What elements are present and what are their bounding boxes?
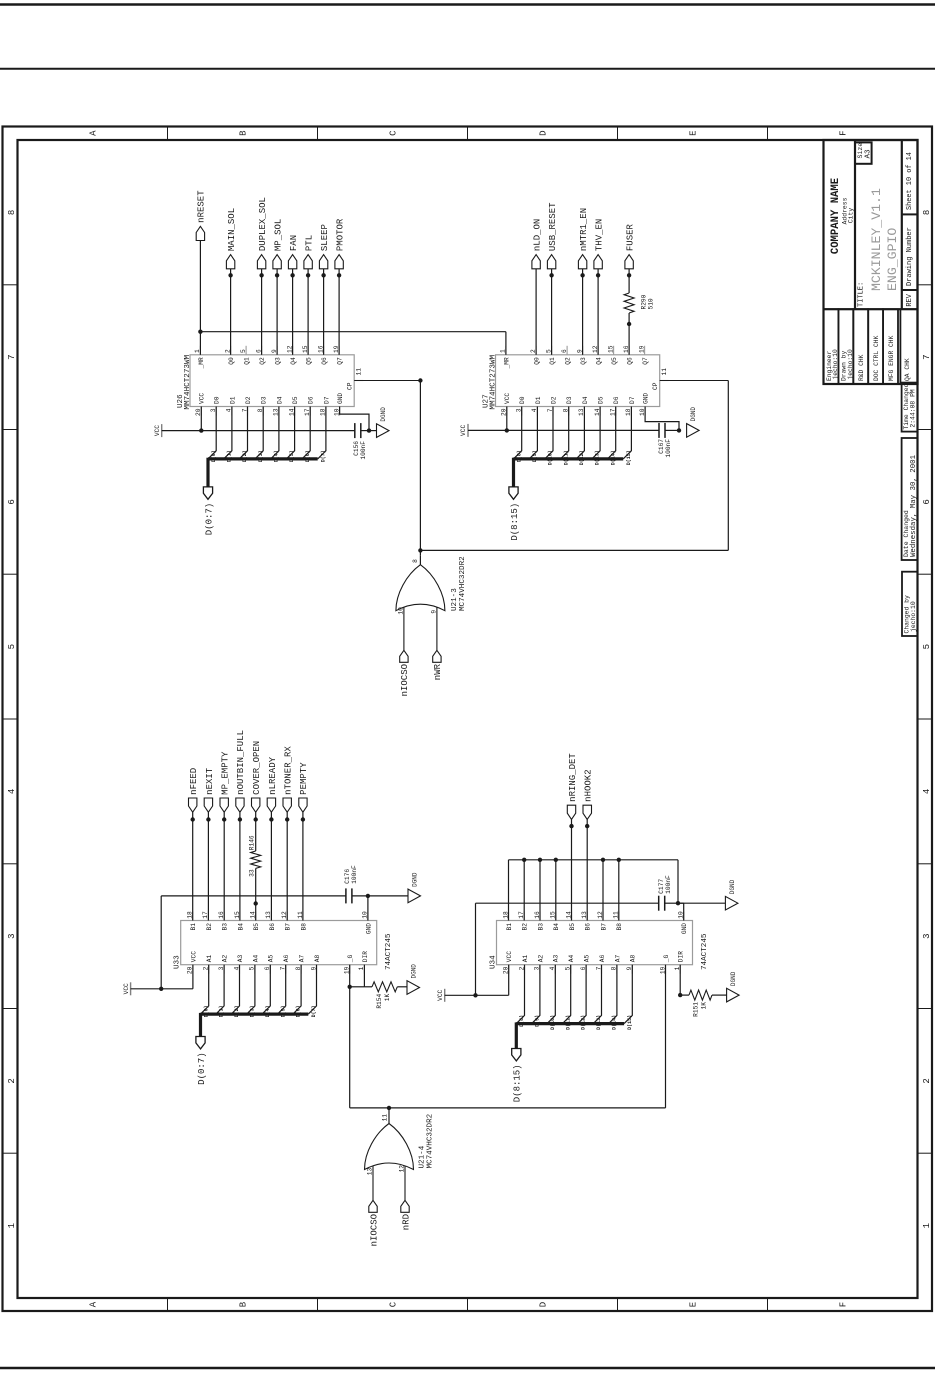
svg-text:A3: A3 — [237, 954, 244, 962]
svg-text:Q4: Q4 — [596, 357, 603, 365]
svg-text:A4: A4 — [568, 954, 575, 962]
bus flag D(0:7) — [203, 487, 212, 499]
svg-text:7: 7 — [7, 354, 17, 359]
svg-text:A: A — [89, 130, 99, 136]
svg-text:A4: A4 — [252, 954, 259, 962]
net flag nEXIT — [207, 812, 209, 920]
svg-text:D7: D7 — [629, 396, 636, 404]
net flag nRD — [401, 1200, 409, 1212]
wire U27 D2 — [545, 407, 553, 459]
svg-text:A5: A5 — [584, 954, 591, 962]
svg-text:D4: D4 — [276, 396, 283, 404]
svg-text:510: 510 — [648, 298, 655, 309]
svg-text:MFG ENGR CHK: MFG ENGR CHK — [888, 335, 895, 381]
ground DGND R154 — [407, 981, 420, 995]
svg-text:33: 33 — [249, 869, 256, 877]
svg-text:8: 8 — [412, 559, 419, 563]
net flag nWR — [433, 650, 441, 662]
svg-text:5: 5 — [7, 644, 17, 649]
svg-text:6: 6 — [7, 499, 17, 504]
svg-text:F: F — [839, 130, 849, 135]
svg-text:11: 11 — [661, 368, 668, 376]
svg-text:A5: A5 — [268, 954, 275, 962]
svg-text:100nF: 100nF — [360, 441, 367, 460]
svg-text:1K: 1K — [701, 1002, 708, 1010]
svg-text:1: 1 — [922, 1223, 932, 1228]
svg-text:D: D — [539, 130, 549, 135]
svg-text:B3: B3 — [537, 923, 544, 931]
svg-text:Q0: Q0 — [228, 357, 235, 365]
svg-text:nRD: nRD — [401, 1214, 411, 1230]
svg-text:DOC CTRL CHK: DOC CTRL CHK — [873, 335, 880, 381]
wire U34 A5 — [578, 965, 586, 1024]
wire U34 B7 — [602, 860, 604, 921]
svg-text:GND: GND — [337, 393, 344, 404]
svg-text:REV: REV — [906, 293, 914, 306]
svg-text:B5: B5 — [253, 923, 260, 931]
svg-text:U21-4: U21-4 — [419, 1145, 427, 1168]
wire U27 D5 — [592, 407, 600, 459]
IC U34 body — [497, 921, 693, 965]
svg-text:Q1: Q1 — [549, 357, 556, 365]
wire U34 B2 — [523, 860, 525, 921]
svg-text:D(15): D(15) — [627, 1015, 633, 1030]
svg-text:PMOTOR: PMOTOR — [335, 218, 345, 251]
svg-text:3: 3 — [922, 933, 932, 938]
power VCC U33 — [130, 982, 132, 995]
net flag nIOCSO (U21-3) — [400, 650, 408, 662]
svg-text:A8: A8 — [630, 954, 637, 962]
net flag FUSER — [625, 255, 633, 269]
svg-text:VCC: VCC — [506, 951, 513, 962]
border column dividers — [3, 1152, 18, 1154]
svg-text:A6: A6 — [283, 954, 290, 962]
svg-text:E: E — [689, 1302, 699, 1307]
svg-text:B: B — [239, 130, 249, 136]
svg-text:B7: B7 — [285, 923, 292, 931]
svg-text:D(7): D(7) — [311, 1005, 317, 1017]
svg-text:FUSER: FUSER — [625, 223, 635, 251]
svg-text:D(8:15): D(8:15) — [513, 1064, 523, 1102]
svg-text:ENG_GPIO: ENG_GPIO — [885, 228, 900, 291]
svg-text:D5: D5 — [292, 396, 299, 404]
svg-text:B8: B8 — [300, 923, 307, 931]
wire U34 B8 — [618, 860, 620, 921]
svg-text:VCC: VCC — [504, 393, 511, 404]
svg-text:SLEEP: SLEEP — [320, 224, 330, 251]
svg-text:C167: C167 — [658, 439, 665, 454]
svg-text:D(8:15): D(8:15) — [510, 503, 520, 541]
wire U34 A2 — [532, 965, 540, 1024]
net flag MP_SOL — [276, 269, 278, 355]
wire U34 B3 — [539, 860, 541, 921]
resistor R154 1K — [372, 982, 397, 992]
wire U27 D3 — [561, 407, 569, 459]
svg-text:9: 9 — [430, 610, 437, 614]
svg-text:PTL: PTL — [304, 235, 314, 251]
svg-text:74ACT245: 74ACT245 — [701, 933, 709, 970]
capacitor C156 100nF — [354, 423, 356, 438]
svg-text:2:44:08 PM: 2:44:08 PM — [910, 389, 917, 428]
svg-text:B2: B2 — [522, 923, 529, 931]
svg-text:D(7): D(7) — [321, 450, 327, 462]
wire U27 D6 — [608, 407, 616, 459]
svg-text:B4: B4 — [237, 923, 244, 931]
svg-text:nRING_DET: nRING_DET — [568, 753, 578, 802]
ground DGND U33 cap — [408, 889, 421, 903]
svg-text:DUPLEX_SOL: DUPLEX_SOL — [258, 197, 268, 251]
svg-text:1K: 1K — [384, 994, 391, 1002]
title block outline — [824, 140, 918, 384]
ground DGND U27 — [687, 424, 700, 438]
wire U33 A7 — [293, 965, 301, 1014]
size box — [855, 142, 872, 163]
qa chk box — [900, 309, 917, 384]
net flag SLEEP — [323, 269, 325, 355]
page rule top — [0, 3, 935, 6]
svg-text:DGND: DGND — [690, 407, 697, 422]
svg-text:Q5: Q5 — [611, 357, 618, 365]
wire U33 A2 — [216, 965, 224, 1014]
wire U26 D0 — [208, 407, 216, 459]
svg-text:DGND: DGND — [412, 872, 419, 887]
net flag nFEED — [192, 812, 194, 920]
svg-text:E: E — [689, 130, 699, 135]
wire U34 A7 — [609, 965, 617, 1024]
svg-text:Q7: Q7 — [337, 357, 344, 365]
svg-text:4: 4 — [922, 789, 932, 794]
wire U26 D1 — [224, 407, 232, 459]
svg-text:_MR: _MR — [198, 357, 205, 369]
svg-text:MCKINLEY_V1.1: MCKINLEY_V1.1 — [869, 188, 884, 291]
svg-text:D3: D3 — [261, 396, 268, 404]
svg-text:R151: R151 — [693, 1002, 700, 1017]
svg-text:5: 5 — [922, 644, 932, 649]
svg-text:Q4: Q4 — [290, 357, 297, 365]
wire U34 B1 — [508, 860, 510, 921]
svg-text:Q5: Q5 — [306, 357, 313, 365]
svg-text:A1: A1 — [522, 954, 529, 962]
svg-text:D6: D6 — [613, 396, 620, 404]
net flag COVER_OPEN — [252, 798, 260, 812]
svg-text:nLREADY: nLREADY — [268, 756, 278, 794]
net flag PTL — [307, 269, 309, 355]
svg-text:jecho:10: jecho:10 — [910, 601, 917, 632]
svg-text:13: 13 — [366, 1167, 373, 1175]
svg-text:Q2: Q2 — [259, 357, 266, 365]
IC U33 body — [181, 921, 377, 965]
svg-text:FAN: FAN — [289, 235, 299, 251]
svg-text:D6: D6 — [308, 396, 315, 404]
wire U26 D6 — [302, 407, 310, 459]
svg-text:1: 1 — [7, 1223, 17, 1228]
ground DGND U26 — [377, 424, 390, 438]
changed by box — [902, 572, 918, 636]
wire U27 D7 — [623, 407, 631, 459]
wire U27 D0 — [514, 407, 522, 459]
svg-text:U21-3: U21-3 — [451, 588, 459, 611]
wire U26 D2 — [239, 407, 247, 459]
svg-text:4: 4 — [7, 789, 17, 794]
net flag nRING_DET — [571, 819, 573, 920]
svg-text:11: 11 — [356, 368, 363, 376]
wire nRESET to U26 _MR and trunk to U27 — [199, 241, 201, 355]
svg-text:B8: B8 — [616, 923, 623, 931]
svg-text:3: 3 — [7, 933, 17, 938]
svg-text:B4: B4 — [553, 923, 560, 931]
svg-text:6: 6 — [922, 499, 932, 504]
svg-text:City: City — [848, 208, 855, 224]
svg-text:nRESET: nRESET — [197, 190, 207, 223]
svg-text:_G: _G — [663, 954, 670, 963]
wire U34 A4 — [563, 965, 571, 1024]
wire U33 _G to OR U21-4 — [349, 965, 351, 1108]
svg-text:C176: C176 — [344, 869, 351, 884]
IC U27 body — [496, 355, 660, 407]
wire U33 GND — [367, 896, 369, 921]
svg-text:_MR: _MR — [503, 357, 510, 369]
svg-text:COVER_OPEN: COVER_OPEN — [252, 741, 262, 795]
svg-text:A1: A1 — [206, 954, 213, 962]
svg-text:VCC: VCC — [199, 393, 206, 404]
svg-text:15: 15 — [607, 345, 614, 353]
wire U27 D1 — [529, 407, 537, 459]
svg-text:C: C — [389, 130, 399, 136]
svg-text:D3: D3 — [566, 396, 573, 404]
svg-text:U33: U33 — [174, 955, 182, 969]
svg-text:MP_SOL: MP_SOL — [273, 219, 283, 251]
page rule bottom — [0, 1367, 935, 1370]
resistor R290 on FUSER net — [628, 313, 630, 355]
svg-text:DGND: DGND — [380, 407, 387, 422]
svg-text:nWR: nWR — [433, 663, 443, 680]
svg-text:DGND: DGND — [730, 971, 737, 986]
svg-text:74ACT245: 74ACT245 — [385, 933, 393, 970]
svg-text:B1: B1 — [190, 923, 197, 931]
net flag nLREADY — [270, 812, 272, 920]
wire U33 DIR — [363, 965, 365, 987]
or-gate U21-3 MC74VHC32DR2 — [403, 601, 405, 651]
wire U34 GND — [683, 903, 685, 920]
svg-text:GND: GND — [365, 923, 372, 934]
wire U26 D3 — [255, 407, 263, 459]
svg-text:B1: B1 — [506, 923, 513, 931]
svg-text:D(0:7): D(0:7) — [197, 1052, 207, 1084]
net flag nOUTBIN_FULL — [239, 812, 241, 920]
svg-text:nHOOK2: nHOOK2 — [584, 769, 594, 801]
wire U34 A3 — [547, 965, 555, 1024]
svg-text:B6: B6 — [585, 923, 592, 931]
svg-text:Q6: Q6 — [321, 357, 328, 365]
net flag nMTR1_EN — [582, 269, 584, 355]
svg-text:A3: A3 — [553, 954, 560, 962]
time changed box — [902, 383, 918, 432]
svg-text:CP: CP — [347, 382, 354, 390]
wire U34 B4 — [555, 860, 557, 921]
svg-text:11: 11 — [382, 1114, 389, 1122]
svg-text:A8: A8 — [314, 954, 321, 962]
svg-text:A: A — [89, 1301, 99, 1307]
or-gate U21-4 MC74VHC32DR2 — [372, 1160, 374, 1201]
svg-text:D1: D1 — [535, 396, 542, 404]
wire U33 A3 — [231, 965, 239, 1014]
bus flag D(8:15) — [509, 487, 518, 499]
svg-text:QA CHK: QA CHK — [904, 358, 911, 381]
bus flag D(8:15) lower — [512, 1049, 521, 1061]
svg-text:Sheet 10 of 14: Sheet 10 of 14 — [906, 152, 914, 210]
svg-text:nIOCSO: nIOCSO — [400, 664, 410, 696]
power VCC U26 — [161, 424, 163, 437]
svg-text:CP: CP — [652, 382, 659, 390]
power VCC U34 — [444, 989, 446, 1002]
svg-text:B5: B5 — [569, 923, 576, 931]
svg-text:nOUTBIN_FULL: nOUTBIN_FULL — [236, 730, 246, 795]
wire U34 DIR — [679, 965, 681, 995]
svg-text:2: 2 — [7, 1078, 17, 1083]
svg-text:D1: D1 — [229, 396, 236, 404]
svg-text:nMTR1_EN: nMTR1_EN — [579, 208, 589, 251]
svg-text:Q7: Q7 — [642, 357, 649, 365]
wire U26 D5 — [286, 407, 294, 459]
svg-text:D7: D7 — [323, 396, 330, 404]
svg-text:B2: B2 — [206, 923, 213, 931]
wire U34 A1 — [516, 965, 524, 1024]
svg-text:100nF: 100nF — [665, 439, 672, 458]
net flag MP_EMPTY — [223, 812, 225, 920]
svg-text:VCC: VCC — [437, 989, 444, 1000]
net flag FAN — [292, 269, 294, 355]
svg-text:nFEED: nFEED — [189, 768, 199, 795]
ground DGND R151 — [727, 988, 740, 1002]
svg-text:7: 7 — [922, 354, 932, 359]
svg-text:A2: A2 — [222, 954, 229, 962]
wire U27 D4 — [576, 407, 584, 459]
wire U26 D4 — [271, 407, 279, 459]
svg-text:MM74HCT273WM: MM74HCT273WM — [490, 354, 498, 409]
svg-text:nIOCSO: nIOCSO — [369, 1214, 379, 1246]
wire U26 GND to DGND — [340, 407, 369, 431]
svg-text:THV_EN: THV_EN — [594, 219, 604, 251]
svg-text:MM74HCT273WM: MM74HCT273WM — [184, 354, 192, 409]
wire U33 A1 — [201, 965, 209, 1014]
svg-text:DIR: DIR — [678, 951, 685, 962]
svg-text:_G: _G — [347, 954, 354, 963]
svg-text:D0: D0 — [519, 396, 526, 404]
wire U26 D7 — [318, 407, 326, 459]
svg-text:R154: R154 — [376, 994, 383, 1009]
svg-text:100nF: 100nF — [665, 875, 672, 894]
svg-text:B: B — [239, 1301, 249, 1307]
svg-text:TITLE:: TITLE: — [858, 282, 866, 307]
svg-text:D5: D5 — [598, 396, 605, 404]
svg-text:COMPANY NAME: COMPANY NAME — [830, 178, 842, 254]
svg-text:10: 10 — [397, 607, 404, 615]
border row dividers — [167, 1298, 169, 1311]
svg-text:R290: R290 — [641, 294, 648, 309]
svg-text:PEMPTY: PEMPTY — [299, 762, 309, 795]
wire CP net U26-U27 OR output — [354, 380, 420, 382]
svg-text:100nF: 100nF — [351, 865, 358, 884]
net flag nTONER_RX — [286, 812, 288, 920]
svg-text:Q3: Q3 — [580, 357, 587, 365]
wire U33 A8 — [308, 965, 316, 1014]
capacitor C177 100nF — [658, 896, 660, 911]
capacitor C176 100nF — [345, 888, 347, 903]
svg-text:Q1: Q1 — [244, 357, 251, 365]
svg-text:Drawing Number: Drawing Number — [906, 227, 914, 286]
svg-text:Q3: Q3 — [275, 357, 282, 365]
svg-text:DIR: DIR — [362, 951, 369, 962]
svg-text:nEXIT: nEXIT — [205, 767, 215, 795]
svg-text:D0: D0 — [214, 396, 221, 404]
svg-text:GND: GND — [643, 393, 650, 404]
resistor R151 1K — [680, 994, 689, 996]
svg-text:nTONER_RX: nTONER_RX — [284, 746, 294, 795]
page rule header — [0, 68, 935, 70]
svg-text:A2: A2 — [537, 954, 544, 962]
svg-text:B3: B3 — [222, 923, 229, 931]
signoff rows — [824, 309, 839, 384]
net flag DUPLEX_SOL — [261, 269, 263, 355]
svg-text:Wednesday, May 30, 2001: Wednesday, May 30, 2001 — [910, 454, 918, 557]
svg-text:F: F — [839, 1302, 849, 1307]
svg-text:VCC: VCC — [154, 425, 161, 436]
svg-text:MC74VHC32DR2: MC74VHC32DR2 — [427, 1113, 435, 1168]
svg-text:C: C — [389, 1301, 399, 1307]
svg-text:B6: B6 — [269, 923, 276, 931]
IC U26 body — [190, 355, 354, 407]
svg-text:8: 8 — [922, 210, 932, 215]
net flag THV_EN — [597, 269, 599, 355]
wire U34 _G to OR U21-4 — [665, 965, 667, 1108]
wire U33 A5 — [262, 965, 270, 1014]
svg-text:Q2: Q2 — [565, 357, 572, 365]
wire U33 A4 — [247, 965, 255, 1014]
wire U34 A6 — [593, 965, 601, 1024]
svg-text:A7: A7 — [299, 954, 306, 962]
svg-text:Q0: Q0 — [534, 357, 541, 365]
svg-text:R&D CHK: R&D CHK — [858, 354, 865, 381]
wire OR U21-4 output trunk — [350, 1107, 666, 1109]
svg-text:5: 5 — [240, 349, 247, 353]
svg-text:MAIN_SOL: MAIN_SOL — [227, 208, 237, 251]
bus flag D(0:7) lower — [196, 1037, 205, 1049]
svg-text:U34: U34 — [490, 955, 498, 969]
svg-text:8: 8 — [7, 210, 17, 215]
svg-text:D: D — [539, 1302, 549, 1307]
svg-text:D2: D2 — [550, 396, 557, 404]
wire U27 GND to DGND — [645, 407, 679, 431]
svg-text:VCC: VCC — [123, 983, 130, 994]
svg-text:A7: A7 — [614, 954, 621, 962]
svg-text:B7: B7 — [600, 923, 607, 931]
svg-text:nLD_ON: nLD_ON — [532, 219, 542, 251]
svg-text:VCC: VCC — [190, 951, 197, 962]
net flag PEMPTY — [302, 812, 304, 920]
svg-text:C156: C156 — [353, 441, 360, 456]
svg-text:12: 12 — [398, 1165, 405, 1173]
net flag nLD_ON — [535, 269, 537, 355]
svg-text:VCC: VCC — [460, 425, 467, 436]
svg-text:D4: D4 — [582, 396, 589, 404]
svg-text:19: 19 — [638, 345, 645, 353]
svg-text:C177: C177 — [658, 879, 665, 894]
ground DGND U34 cap — [725, 896, 738, 910]
svg-text:A6: A6 — [599, 954, 606, 962]
svg-text:2: 2 — [922, 1078, 932, 1083]
svg-text:USB_RESET: USB_RESET — [548, 202, 558, 251]
svg-text:6: 6 — [561, 349, 568, 353]
